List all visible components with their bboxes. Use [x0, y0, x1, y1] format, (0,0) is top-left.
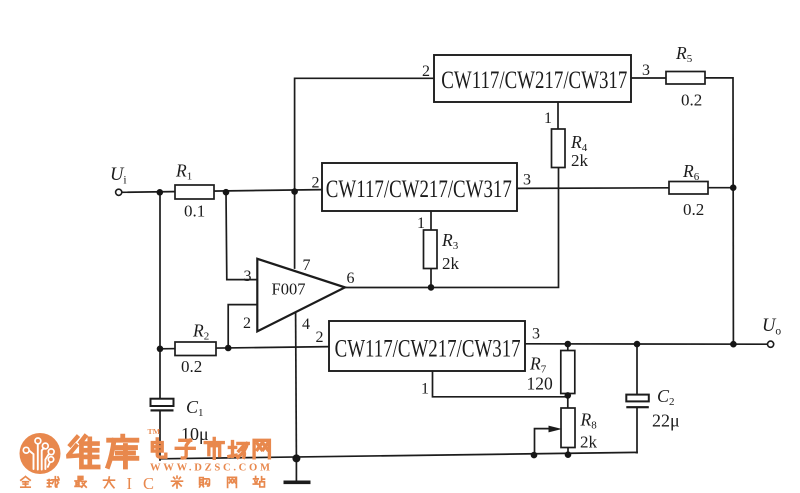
svg-text:0.2: 0.2 [683, 200, 704, 219]
svg-text:0.2: 0.2 [681, 91, 702, 110]
op-amp U4 F007 [257, 259, 345, 332]
resistor R2 [175, 321, 216, 377]
wire: op-amp pin4 down to ground [295, 313, 298, 459]
node: R7 top on output row [565, 341, 572, 348]
watermark char 网 (small) [228, 477, 237, 487]
regulator U1 CW117/CW217/CW317 [434, 55, 631, 102]
svg-text:CW117/CW217/CW317: CW117/CW217/CW317 [441, 65, 627, 94]
svg-text:0.1: 0.1 [184, 202, 205, 221]
wire: U3 pin1 down and right to R7/R8 node [433, 371, 568, 397]
resistor R6 [669, 161, 708, 219]
node: C2 top on output row [634, 341, 641, 348]
svg-text:3: 3 [523, 172, 531, 189]
watermark char 网 [254, 440, 269, 458]
node: R2 right / op-amp pin2 [225, 345, 232, 352]
wire: C2 bottom to ground rail end [636, 408, 638, 452]
watermark char 站 [253, 477, 264, 487]
resistor R3 [424, 230, 460, 273]
resistor R8 (rheostat) [561, 408, 598, 452]
node: supply net on Ui row [291, 188, 298, 195]
svg-text:2k: 2k [580, 433, 598, 452]
wire: U3 pin3 output row to Uo [525, 343, 768, 345]
svg-text:3: 3 [532, 326, 540, 343]
wire: R6 right to right rail [708, 187, 733, 189]
resistor R5 [666, 43, 705, 110]
svg-text:7: 7 [303, 257, 311, 274]
wire: R3 bottom to op-amp output row [430, 269, 432, 288]
wire: op-amp output pin6 to R4 bottom riser [345, 168, 559, 288]
svg-text:2k: 2k [571, 151, 589, 170]
ground stem [295, 458, 297, 480]
watermark char 市 [205, 438, 223, 458]
svg-text:6: 6 [347, 270, 355, 287]
wire: R5 right to right rail corner [705, 78, 733, 344]
svg-text:2k: 2k [442, 254, 460, 273]
wire: R8 bottom to ground rail [567, 448, 569, 455]
input terminal Ui [116, 189, 122, 195]
resistor R4 [552, 129, 589, 170]
wire: op-amp pin2 down to R2 node [228, 305, 257, 348]
node: R1 left / left rail [157, 189, 164, 196]
watermark char 大 [104, 477, 115, 488]
watermark logo circle [20, 433, 61, 474]
wire: ground rail [160, 452, 637, 458]
watermark char 电 [152, 439, 166, 457]
watermark char 库 [108, 436, 137, 467]
wire: C1 bottom to ground rail [159, 412, 161, 461]
wire: U1 pin3 to R5 [631, 77, 666, 79]
watermark char 场 [229, 442, 248, 458]
wire: R8 wiper arrow riser [535, 429, 553, 456]
svg-text:TM: TM [148, 427, 161, 436]
output terminal Uo [768, 341, 774, 347]
svg-text:1: 1 [544, 110, 552, 127]
node: R2 left on left rail [157, 346, 164, 353]
resistor R1 [175, 161, 214, 221]
node: R3 bottom on output row [428, 284, 435, 291]
wire: C2 top connection [636, 344, 638, 395]
R8 wiper arrowhead [549, 426, 563, 433]
watermark char 子 [176, 440, 194, 458]
svg-text:22μ: 22μ [652, 411, 680, 431]
wire: U1 pin2 across top, down to op-amp pin7 [295, 78, 434, 268]
watermark char 采 [172, 476, 183, 488]
ground [284, 481, 311, 485]
wire: U1 pin1 down to R4 top [557, 102, 559, 129]
svg-text:3: 3 [642, 62, 650, 79]
wire: U2 pin1 down through R3 to output row [430, 211, 432, 230]
watermark char 维 [68, 437, 98, 467]
node: R1 right / pin3 branch [223, 189, 230, 196]
watermark char 全 [21, 477, 30, 488]
wire: R7 top stub [567, 344, 569, 351]
svg-text:2: 2 [312, 175, 320, 192]
svg-text:4: 4 [302, 316, 310, 333]
watermark logo circuit tree [23, 438, 54, 470]
svg-text:CW117/CW217/CW317: CW117/CW217/CW317 [335, 334, 521, 363]
capacitor C2 [626, 386, 679, 431]
wire: R1 right to op-amp pin3 [226, 192, 257, 279]
wire: R7 bottom to R8 top node [567, 394, 569, 409]
wire: Ui to U2 pin2 [121, 190, 322, 193]
resistor R7 [527, 351, 575, 394]
wire: left vertical rail (node A to C1) [159, 192, 161, 398]
svg-text:CW117/CW217/CW317: CW117/CW217/CW317 [326, 174, 512, 203]
svg-text:I: I [127, 474, 133, 493]
node: R8 wiper on ground rail [531, 452, 538, 459]
svg-text:2: 2 [243, 315, 251, 332]
node: R6 right on right rail [730, 184, 737, 191]
svg-text:C: C [143, 474, 154, 493]
svg-text:120: 120 [527, 374, 554, 394]
node: R7 bottom / U3 pin1 / R8 top [565, 392, 572, 399]
svg-text:2: 2 [422, 63, 430, 80]
node: R8 bottom on ground rail [565, 451, 572, 458]
watermark char 最 [75, 477, 86, 488]
svg-text:WWW.DZSC.COM: WWW.DZSC.COM [150, 463, 273, 474]
svg-text:2: 2 [316, 329, 324, 346]
capacitor C1 [151, 397, 209, 444]
node: right rail joins output row [730, 341, 737, 348]
watermark char 球 [47, 477, 59, 487]
svg-text:1: 1 [421, 381, 429, 398]
wire: U2 pin3 row to R6 [517, 187, 669, 190]
node: ground junction [292, 454, 300, 462]
watermark char 购 [200, 478, 210, 487]
svg-text:F007: F007 [272, 280, 306, 299]
regulator U2 CW117/CW217/CW317 [322, 163, 517, 211]
svg-text:0.2: 0.2 [181, 357, 202, 376]
wire: R2 row from left rail to U3 pin2 [160, 347, 329, 349]
regulator U3 CW117/CW217/CW317 [329, 321, 525, 371]
svg-text:3: 3 [244, 268, 252, 285]
